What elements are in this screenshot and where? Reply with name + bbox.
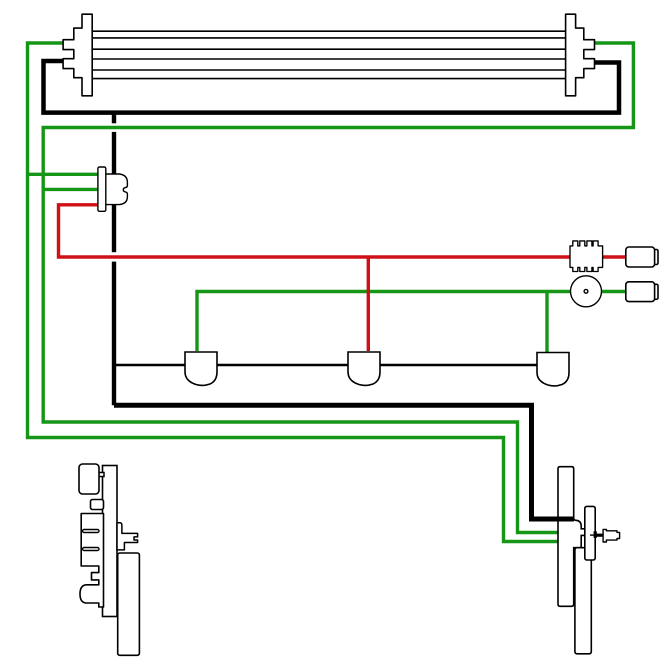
solenoid lower bar xyxy=(575,548,591,654)
solenoid bolt cross mark xyxy=(594,531,597,538)
radiator right end cap xyxy=(566,14,595,96)
sensor 1 (dome) xyxy=(185,352,217,385)
solenoid thin bar xyxy=(585,506,595,560)
wire green second loop: right cap around to bottom-right unit xyxy=(43,43,633,533)
distributor slot 1 xyxy=(83,530,100,533)
wire black thick end segment over main bar xyxy=(555,517,574,522)
distributor small tab 2 xyxy=(91,500,104,510)
distributor mid block with notch and round bump xyxy=(80,514,104,608)
radiator tube 2 xyxy=(92,37,566,39)
wire hop gap on black drop at red crossing xyxy=(111,252,117,261)
wire green drop to sensor 3 xyxy=(545,292,548,353)
distributor right key xyxy=(117,523,138,550)
radiator tube 6 xyxy=(92,78,566,80)
solenoid unit (bottom right) main bar xyxy=(558,467,587,607)
wire black main loop around radiator xyxy=(44,61,620,113)
wire red from connector pin 3 to resistor block xyxy=(59,205,571,257)
radiator tube 5 xyxy=(92,69,566,71)
wire black thin sensor line through sensors xyxy=(114,364,537,367)
terminal lug 2 (green) xyxy=(626,282,658,302)
sensor 2 (dome) xyxy=(348,352,380,385)
distributor unit (bottom left) spine xyxy=(103,466,118,617)
wire red from resistor block to terminal 1 xyxy=(603,255,626,258)
sensor 3 (dome) xyxy=(537,353,569,386)
wire black vertical drop from radiator loop xyxy=(112,112,116,405)
wire hop gap on black drop at green crossing xyxy=(111,123,117,132)
distributor slot 2 xyxy=(83,548,100,551)
wire green sensor bus: to circle gauge and terminal xyxy=(197,292,626,352)
wire green branch to connector pin 2 xyxy=(43,188,98,191)
radiator tube 3 xyxy=(92,48,566,50)
solenoid bolt stem xyxy=(590,534,595,536)
wire black thick to bottom-right unit xyxy=(114,405,559,519)
solenoid bolt xyxy=(603,529,620,542)
wire green branch to connector pin 1 xyxy=(28,173,99,176)
wire red drop to sensor 2 xyxy=(367,257,370,351)
distributor right bar xyxy=(118,553,140,655)
radiator tube 4 xyxy=(92,58,566,60)
resistor block with fins xyxy=(570,241,603,272)
radiator tube 1 xyxy=(92,30,566,32)
terminal lug 1 (red) xyxy=(626,247,658,267)
gauge circle with center dot xyxy=(571,276,602,307)
distributor top cap tab xyxy=(98,473,104,477)
radiator left end cap xyxy=(63,14,92,96)
connector plug on black drop wire xyxy=(98,167,128,211)
wire green outer loop: left cap to bottom-right unit xyxy=(28,43,558,542)
